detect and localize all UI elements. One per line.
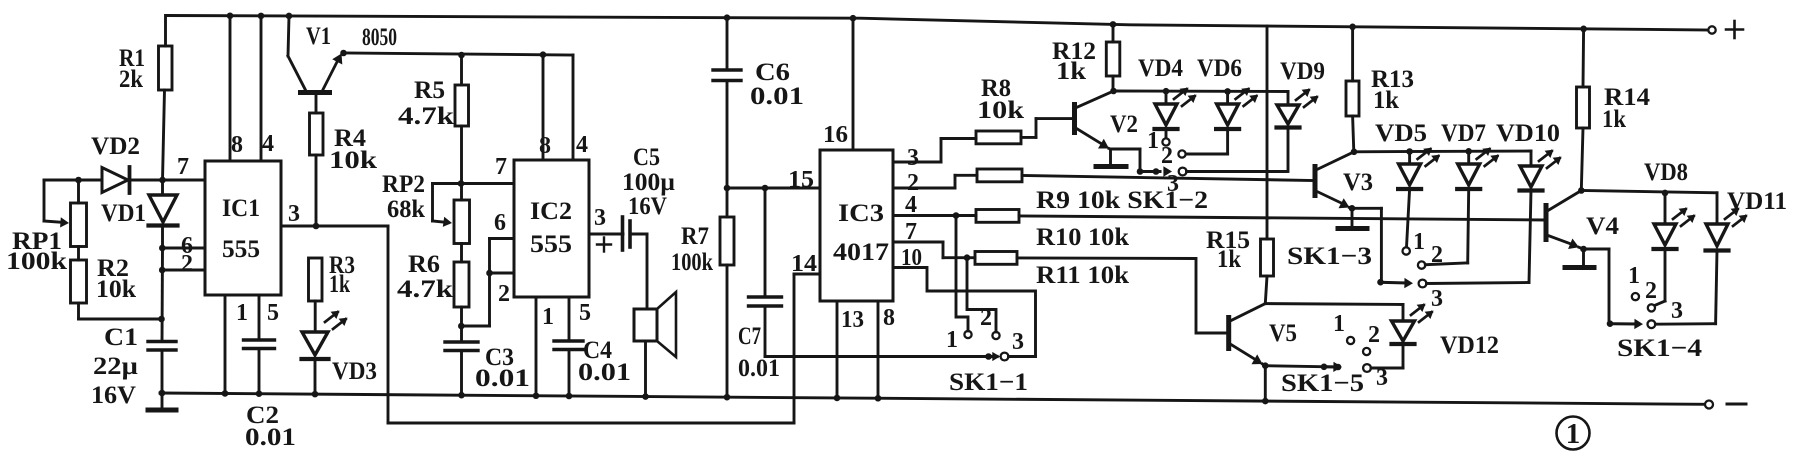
V4 emitter ground xyxy=(1565,246,1594,268)
svg-text:4: 4 xyxy=(262,131,274,157)
IC2 pin 3 wire xyxy=(589,205,623,234)
svg-text:VD3: VD3 xyxy=(332,358,377,385)
svg-text:1k: 1k xyxy=(329,271,350,298)
svg-text:RP2: RP2 xyxy=(382,171,425,198)
svg-text:R6: R6 xyxy=(408,251,440,278)
svg-text:8: 8 xyxy=(231,132,243,158)
svg-text:8050: 8050 xyxy=(362,24,397,51)
svg-text:R9 10k SK1−2: R9 10k SK1−2 xyxy=(1036,187,1208,214)
diode VD1 xyxy=(101,180,178,248)
svg-text:1: 1 xyxy=(1147,128,1159,154)
IC3 pin 4 wire xyxy=(893,192,976,219)
IC2 pin 6 wire xyxy=(490,210,515,273)
IC2 pin 2 wire xyxy=(461,270,514,326)
svg-text:R7: R7 xyxy=(681,223,709,250)
capacitor C5 electrolytic xyxy=(597,144,675,309)
switch SK1-4 contact 1 xyxy=(1632,293,1639,300)
svg-text:555: 555 xyxy=(222,236,260,263)
switch SK1-5 xyxy=(1265,311,1403,397)
svg-text:SK1−5: SK1−5 xyxy=(1281,370,1364,397)
svg-text:VD5: VD5 xyxy=(1375,120,1427,147)
svg-text:VD7: VD7 xyxy=(1441,120,1486,147)
node pin7/VD2/VD1 junction xyxy=(159,177,166,184)
svg-text:22µ: 22µ xyxy=(93,353,138,380)
switch SK1-1 contact 1 wire xyxy=(956,216,972,339)
wire to IC3 pin 15 xyxy=(727,187,820,190)
resistor R4 xyxy=(310,95,378,227)
svg-text:1: 1 xyxy=(1413,229,1425,255)
positive terminal + xyxy=(1708,21,1743,38)
switch SK1-4 xyxy=(1607,263,1716,362)
svg-text:1: 1 xyxy=(236,300,248,326)
svg-text:10k: 10k xyxy=(96,276,136,303)
circled figure 1 xyxy=(1557,417,1590,451)
speaker xyxy=(634,292,676,400)
wire V5 emitter to rail xyxy=(1262,362,1269,404)
svg-text:C7: C7 xyxy=(738,323,761,350)
IC3 pin 15 label xyxy=(788,167,814,193)
svg-text:0.01: 0.01 xyxy=(738,355,780,382)
resistor R11 xyxy=(975,252,1227,334)
svg-text:3: 3 xyxy=(1167,171,1179,197)
svg-text:C5: C5 xyxy=(633,144,660,171)
svg-text:15: 15 xyxy=(788,167,814,193)
op IC3 4017 counter xyxy=(820,150,893,301)
svg-text:1k: 1k xyxy=(1602,106,1626,133)
LED VD11 xyxy=(1706,188,1788,324)
op IC1 555 timer xyxy=(205,161,281,295)
svg-text:C1: C1 xyxy=(104,324,138,351)
transistor V3 xyxy=(1315,149,1373,209)
svg-text:1k: 1k xyxy=(1373,87,1399,114)
IC3 pin 10 wire xyxy=(893,245,1036,357)
svg-text:4017: 4017 xyxy=(833,239,889,266)
transistor V4 xyxy=(1546,187,1620,249)
wire V3 collector LED bus xyxy=(1354,151,1531,166)
wire top supply rail xyxy=(166,16,1711,31)
svg-text:5: 5 xyxy=(267,300,279,326)
switch SK1-2 xyxy=(1137,128,1286,197)
IC1 pin 4 wire xyxy=(258,13,274,161)
resistor R6 xyxy=(397,244,469,343)
switch SK1-5 contact 1 xyxy=(1347,337,1354,344)
switch SK1-3 contact 2 xyxy=(1418,261,1468,268)
svg-text:0.01: 0.01 xyxy=(475,365,530,392)
svg-text:VD9: VD9 xyxy=(1280,58,1325,85)
LED VD6 xyxy=(1186,55,1258,154)
LED VD12 xyxy=(1265,304,1499,359)
svg-text:2: 2 xyxy=(1368,322,1380,348)
svg-text:10k: 10k xyxy=(329,147,377,174)
svg-text:0.01: 0.01 xyxy=(578,359,631,386)
capacitor C4 xyxy=(554,337,631,399)
IC3 pin 14 label xyxy=(791,251,817,277)
wire IC1 pin3 to IC3 pin14 feedback xyxy=(388,226,820,423)
svg-text:VD6: VD6 xyxy=(1197,55,1242,82)
op IC2 555 timer xyxy=(514,160,589,297)
svg-text:8: 8 xyxy=(539,133,551,159)
resistor R12 xyxy=(1052,21,1120,91)
wire V4 emitter to SK1-4 xyxy=(1584,249,1610,324)
svg-text:5: 5 xyxy=(579,300,591,326)
svg-text:1: 1 xyxy=(1333,311,1345,337)
LED VD9 xyxy=(1277,58,1326,172)
switch SK1-2 contact 2 xyxy=(1178,150,1185,157)
svg-text:2: 2 xyxy=(1645,278,1657,304)
IC1 pin 5 wire xyxy=(259,295,279,340)
svg-text:3: 3 xyxy=(1012,329,1024,355)
svg-text:3: 3 xyxy=(1431,286,1443,312)
svg-text:2: 2 xyxy=(498,281,510,307)
svg-text:IC1: IC1 xyxy=(222,195,260,222)
svg-text:1: 1 xyxy=(1628,263,1640,289)
capacitor C3 xyxy=(445,323,530,399)
switch SK1-3 contact 1 xyxy=(1403,247,1410,254)
wire V3 emitter to SK1-3 xyxy=(1352,208,1381,282)
IC2 pin 4 wire xyxy=(573,55,588,160)
LED VD5 xyxy=(1375,120,1440,247)
IC3 pin 7 wire xyxy=(893,219,975,261)
svg-text:4: 4 xyxy=(576,132,588,158)
negative terminal - xyxy=(1705,401,1746,409)
IC3 pin 13 wire xyxy=(834,301,864,401)
IC1 pin 7 wire xyxy=(163,154,206,180)
resistor R1 xyxy=(119,16,172,181)
svg-text:16: 16 xyxy=(823,122,848,148)
svg-text:13: 13 xyxy=(841,307,864,333)
svg-text:8: 8 xyxy=(883,305,895,331)
svg-text:R10 10k: R10 10k xyxy=(1036,224,1129,251)
svg-text:SK1−4: SK1−4 xyxy=(1617,335,1703,362)
svg-text:IC3: IC3 xyxy=(838,200,884,227)
ground under C1 xyxy=(148,390,176,410)
svg-text:V4: V4 xyxy=(1586,213,1620,240)
wire V1 emitter to IC2 supply xyxy=(344,53,574,55)
svg-text:2k: 2k xyxy=(119,66,143,93)
diode VD2 xyxy=(79,133,163,193)
switch SK1-3 xyxy=(1287,229,1529,312)
svg-text:0.01: 0.01 xyxy=(245,424,296,451)
svg-text:16V: 16V xyxy=(628,193,667,220)
V3 emitter ground xyxy=(1338,205,1367,229)
IC2 pin 1 wire xyxy=(533,297,554,399)
resistor R9 xyxy=(977,169,1314,214)
resistor R2 xyxy=(71,255,162,319)
switch SK1-4 contact 2 xyxy=(1648,304,1655,311)
svg-text:1: 1 xyxy=(542,304,554,330)
svg-text:100µ: 100µ xyxy=(622,169,675,196)
LED VD4 xyxy=(1138,55,1197,138)
svg-text:VD4: VD4 xyxy=(1138,55,1183,82)
IC2 pin 7 label xyxy=(495,154,507,180)
capacitor C7 xyxy=(738,185,782,382)
transistor V1 8050 xyxy=(286,13,397,93)
IC3 pin 3 wire xyxy=(893,139,976,172)
capacitor C6 xyxy=(713,14,804,188)
wire V4 collector LED bus xyxy=(1581,191,1717,225)
svg-text:4.7k: 4.7k xyxy=(397,276,453,303)
svg-text:4: 4 xyxy=(905,192,917,218)
svg-text:14: 14 xyxy=(791,251,817,277)
svg-text:2: 2 xyxy=(1161,143,1173,169)
IC2 pin 5 wire xyxy=(569,297,591,341)
potentiometer RP1 xyxy=(6,180,87,275)
resistor R7 xyxy=(671,185,734,401)
svg-text:0.01: 0.01 xyxy=(750,83,804,110)
svg-text:1k: 1k xyxy=(1056,58,1086,85)
capacitor C1 xyxy=(91,324,176,409)
resistor R14 xyxy=(1577,26,1651,191)
svg-text:VD1: VD1 xyxy=(101,200,146,227)
svg-text:1: 1 xyxy=(946,327,958,353)
LED VD7 xyxy=(1441,120,1499,263)
svg-text:1k: 1k xyxy=(1217,246,1241,273)
resistor R5 xyxy=(398,52,469,200)
svg-text:V2: V2 xyxy=(1110,111,1138,138)
svg-text:VD2: VD2 xyxy=(91,133,140,160)
svg-text:R11 10k: R11 10k xyxy=(1036,262,1129,289)
svg-text:3: 3 xyxy=(594,205,606,231)
wire V2 collector LED bus xyxy=(1114,90,1289,93)
svg-text:V3: V3 xyxy=(1343,169,1373,196)
svg-text:1: 1 xyxy=(1566,418,1581,450)
svg-text:555: 555 xyxy=(530,231,572,258)
resistor R3 xyxy=(309,252,356,332)
transistor V2 xyxy=(1075,88,1139,149)
svg-text:7: 7 xyxy=(495,154,507,180)
resistor R13 xyxy=(1346,23,1414,151)
transistor V5 xyxy=(1229,304,1297,365)
svg-text:VD10: VD10 xyxy=(1496,120,1560,147)
svg-text:16V: 16V xyxy=(91,382,136,409)
svg-text:10: 10 xyxy=(901,245,922,271)
LED VD3 xyxy=(302,311,378,398)
svg-text:VD12: VD12 xyxy=(1440,332,1499,359)
svg-text:V5: V5 xyxy=(1269,320,1297,347)
switch SK1-2 contact 1 xyxy=(1162,138,1169,145)
IC2 pin 8 wire xyxy=(539,51,551,160)
switch SK1-1 contact 2 wire xyxy=(967,258,1000,339)
svg-text:R5: R5 xyxy=(414,77,445,104)
IC1 pin 3 wire xyxy=(281,201,388,229)
IC1 pin 8 wire xyxy=(227,12,243,161)
svg-text:VD8: VD8 xyxy=(1644,159,1688,186)
svg-text:3: 3 xyxy=(907,145,919,171)
svg-text:100k: 100k xyxy=(671,249,713,276)
potentiometer RP2 xyxy=(382,171,514,244)
capacitor C2 xyxy=(244,340,297,451)
svg-text:SK1−1: SK1−1 xyxy=(949,369,1028,396)
IC1 pin 2 wire xyxy=(162,251,205,277)
LED VD10 xyxy=(1496,120,1562,283)
svg-text:6: 6 xyxy=(494,210,506,236)
switch SK1-5 contact 2 xyxy=(1363,348,1370,355)
svg-text:4.7k: 4.7k xyxy=(398,103,454,130)
resistor R15 xyxy=(1206,26,1274,304)
IC1 pin 1 wire xyxy=(222,295,248,397)
node RP1 top junction xyxy=(75,177,82,184)
resistor R10 xyxy=(976,210,1545,252)
svg-text:10k: 10k xyxy=(977,97,1024,124)
svg-text:68k: 68k xyxy=(387,196,425,223)
wire V2 emitter to SK1-2 xyxy=(1111,149,1141,172)
svg-text:3: 3 xyxy=(1376,365,1388,391)
svg-text:3: 3 xyxy=(288,201,300,227)
svg-text:2: 2 xyxy=(181,251,193,277)
svg-text:V1: V1 xyxy=(306,23,331,50)
svg-text:VD11: VD11 xyxy=(1727,188,1787,215)
resistor R8 xyxy=(976,75,1073,144)
wire VD1 to C1 with taps xyxy=(158,245,165,342)
svg-text:7: 7 xyxy=(177,154,189,180)
wire bottom supply rail xyxy=(160,393,1706,404)
IC3 pin 16 wire xyxy=(823,15,856,150)
LED VD8 xyxy=(1644,159,1696,306)
svg-text:100k: 100k xyxy=(6,248,67,275)
svg-text:SK1−3: SK1−3 xyxy=(1287,243,1372,270)
svg-text:3: 3 xyxy=(1671,298,1683,324)
IC3 pin 2 wire xyxy=(893,170,977,196)
svg-text:7: 7 xyxy=(905,219,917,245)
IC3 pin 8 wire xyxy=(875,301,895,402)
svg-text:IC2: IC2 xyxy=(530,198,572,225)
IC1 pin 6 wire xyxy=(162,233,205,259)
V2 emitter ground xyxy=(1096,149,1126,167)
switch SK1-1 xyxy=(765,305,1036,396)
svg-text:C6: C6 xyxy=(755,59,790,86)
